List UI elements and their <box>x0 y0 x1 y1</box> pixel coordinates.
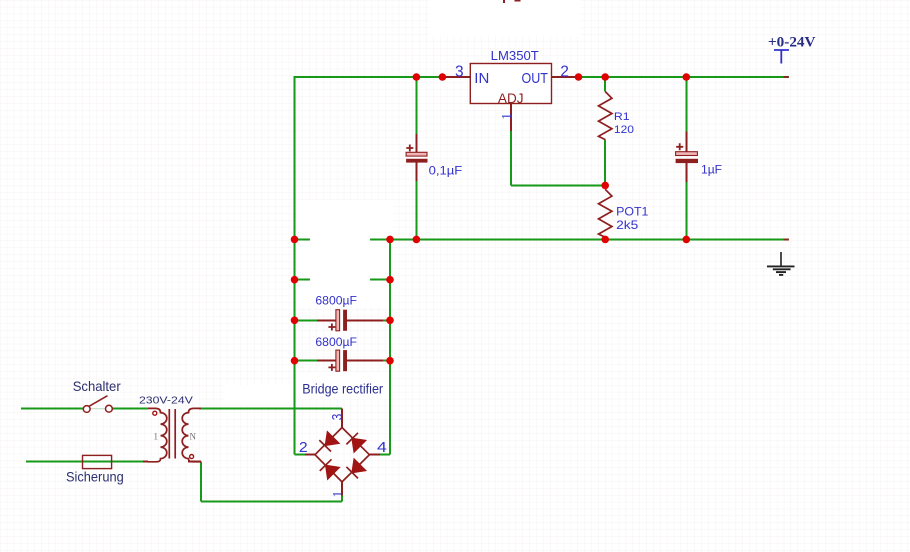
wire top rail left <box>295 76 443 78</box>
pin 3 IC <box>442 76 470 78</box>
junction row280 right <box>386 276 394 284</box>
junction bottom rail / C1 branch <box>413 236 421 244</box>
wire cap row1 right <box>383 319 390 321</box>
wire trafo top right to bridge pin3 <box>199 407 342 409</box>
svg-text:1: 1 <box>331 491 346 498</box>
wire POT1 bottom stub <box>604 237 606 239</box>
capacitor C1 0,1uF <box>406 145 462 178</box>
polarity dot primary <box>153 411 157 415</box>
wire C2 branch lower <box>685 182 687 239</box>
svg-text:2: 2 <box>299 440 308 456</box>
white patch top (dialog remnant) <box>429 0 580 36</box>
capacitor C3 6800uF <box>315 294 357 331</box>
wire trafo bottom right down <box>200 462 202 502</box>
svg-text:0,1µF: 0,1µF <box>429 164 463 178</box>
wire left vertical <box>294 76 296 455</box>
wire top rail right <box>579 76 789 78</box>
wire bottom rail left stub <box>295 238 311 240</box>
wire bridge pin1 stub <box>341 496 343 502</box>
pin C1 upper lead <box>415 134 417 153</box>
junction C3 left <box>291 317 299 325</box>
svg-text:LM350T: LM350T <box>491 49 539 63</box>
junction ADJ node / R1-POT1 <box>601 182 609 190</box>
pin 1 ADJ <box>510 104 512 132</box>
svg-text:6800µF: 6800µF <box>315 294 357 308</box>
svg-text:OUT: OUT <box>522 70 548 87</box>
resistor R1 <box>599 92 635 140</box>
svg-text:3: 3 <box>330 414 346 421</box>
svg-text:POT1: POT1 <box>616 205 649 219</box>
pin 2 IC <box>552 76 579 78</box>
wire bottom rail <box>370 238 789 240</box>
supply symbol +0-24V <box>768 34 816 63</box>
pin C1 lower lead <box>415 163 417 181</box>
svg-text:230V-24V: 230V-24V <box>139 395 193 407</box>
junction C4 left <box>291 357 299 365</box>
wire C1 branch lower <box>415 181 417 239</box>
junction bottom rail / left vertical <box>291 236 299 244</box>
junction bottom rail / C2 branch <box>683 236 691 244</box>
wire R1 bottom stub <box>604 140 606 186</box>
pin C2 upper lead <box>685 132 687 152</box>
svg-text:3: 3 <box>455 64 464 81</box>
svg-text:6800µF: 6800µF <box>315 335 357 349</box>
pin bridge 1 <box>341 482 343 496</box>
svg-text:Bridge rectifier: Bridge rectifier <box>302 381 383 396</box>
wire bottom to bridge pin1 <box>201 501 342 503</box>
junction row280 left <box>291 276 299 284</box>
wire mains bottom to trafo <box>26 461 143 463</box>
pin C4 right lead <box>347 360 383 362</box>
capacitor C4 6800uF <box>315 335 357 371</box>
pin bridge 3 <box>341 408 343 427</box>
transformer TR1 <box>139 395 201 462</box>
junction top rail / IC pin 2 <box>575 73 583 81</box>
potentiometer POT1 <box>599 189 649 237</box>
white patch right of 230V label <box>224 385 294 405</box>
svg-text:2k5: 2k5 <box>616 218 639 232</box>
svg-text:4: 4 <box>377 440 387 456</box>
junction bottom rail / POT1 <box>601 236 609 244</box>
svg-text:120: 120 <box>614 124 634 136</box>
switch S1 <box>73 378 121 413</box>
fuse F1 <box>66 455 124 484</box>
diode D2 top-right <box>352 439 365 452</box>
wire mains top to switch <box>21 408 83 410</box>
diode D3 bottom-left <box>326 466 339 479</box>
pin gnd tail bottom <box>784 238 790 240</box>
wire C1 branch upper <box>415 77 417 134</box>
svg-text:2: 2 <box>560 64 569 81</box>
pin supply tail top <box>784 76 790 78</box>
white patch middle (dialog remnant) <box>297 200 394 307</box>
diode D1 top-left <box>326 432 339 445</box>
junction C4 right <box>386 357 394 365</box>
diamond edges <box>315 428 369 482</box>
white patch above bridge label <box>296 372 390 399</box>
svg-text:1µF: 1µF <box>701 163 722 177</box>
wire C2 branch upper <box>685 77 687 132</box>
junction bottom rail / right vertical <box>386 236 394 244</box>
pin C3 right lead <box>347 319 383 321</box>
svg-text:R1: R1 <box>614 111 630 123</box>
faint line between switch contacts <box>90 408 106 410</box>
svg-text:1: 1 <box>500 113 515 120</box>
wire row 280 left stub <box>295 279 311 281</box>
pin C2 lower lead <box>685 163 687 182</box>
pin bridge 2 <box>305 454 315 456</box>
junction top rail / IC pin 3 <box>439 73 447 81</box>
diode D4 bottom-right <box>352 459 365 472</box>
secondary winding <box>182 408 201 461</box>
pin bridge 4 <box>369 454 380 456</box>
svg-text:Sicherung: Sicherung <box>66 468 124 484</box>
wire row 280 right stub <box>370 279 390 281</box>
junction top rail / C2 branch <box>683 73 691 81</box>
wire right vertical to bridge pin4 <box>380 454 390 456</box>
wire ADJ vertical <box>510 131 512 185</box>
wire R1 top stub <box>604 77 606 92</box>
regulator U1 LM350T <box>455 49 569 120</box>
cropped title text remnants at top <box>503 0 505 3</box>
capacitor C2 1uF <box>676 143 722 176</box>
svg-text:1: 1 <box>154 431 159 441</box>
wire right vertical <box>389 239 391 454</box>
ground symbol <box>767 252 795 275</box>
junction C3 right <box>386 317 394 325</box>
svg-text:+0-24V: +0-24V <box>768 34 816 50</box>
wire cap row2 left <box>295 360 318 362</box>
wire cap row2 right <box>383 360 390 362</box>
core lines <box>169 409 175 459</box>
pin C4 left lead <box>317 360 336 362</box>
wire switch to trafo <box>113 408 149 410</box>
pin C3 left lead <box>317 319 336 321</box>
svg-text:ADJ: ADJ <box>498 90 524 106</box>
pin trafo out bottom <box>188 461 201 463</box>
primary winding <box>148 408 167 461</box>
svg-text:Schalter: Schalter <box>73 378 121 394</box>
junction top rail / R1 branch <box>601 73 609 81</box>
svg-text:IN: IN <box>474 70 489 87</box>
polarity dot secondary <box>190 455 194 459</box>
pin trafo in top <box>143 461 148 463</box>
bridge rectifier B1 <box>299 381 387 497</box>
wire ADJ horizontal <box>511 184 605 186</box>
junction top rail / C1 branch <box>413 73 421 81</box>
svg-text:N: N <box>190 431 197 441</box>
wire cap row1 left <box>295 319 318 321</box>
wire left vertical to bridge pin2 <box>295 454 306 456</box>
